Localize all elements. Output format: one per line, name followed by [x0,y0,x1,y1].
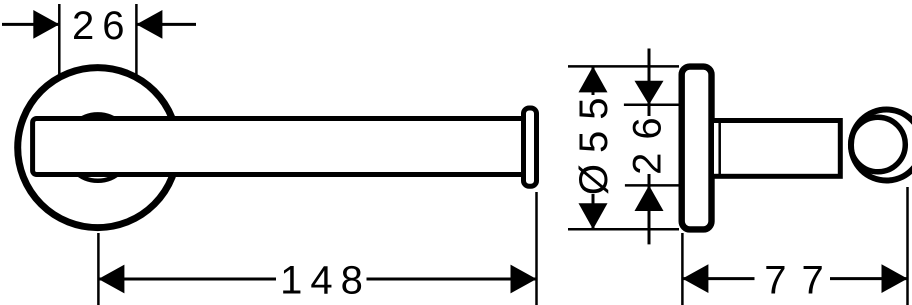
dim 77: right arrow [882,264,908,293]
dim 26 top: left arrow [33,10,59,39]
dim 26 top: right extension line [135,4,138,76]
side view: ring outer circle [851,110,912,181]
dim 148: right extension line [535,192,538,305]
dim 148: left arrow [98,265,124,294]
dim O55: bottom extension line [568,228,679,231]
dim 26 top: left extension line [58,4,61,75]
dim O55: top arrow [579,66,608,92]
side view: arm base edge line [718,121,721,177]
side view: rosette plate [682,67,712,230]
dim 148: line left segment [98,278,276,281]
front view: wall rosette circle [18,68,178,228]
dim 148: left extension line [97,233,100,305]
dim O55: line bottom segment [592,194,595,229]
dim 26 top: right arrow [136,10,162,39]
dim 148: right arrow [511,265,537,294]
dim 26 side: bottom extension line [625,184,679,187]
dim 26 side: line top segment [648,49,651,117]
dim 77: line left segment [682,277,754,280]
dim 26 top: right leader line [136,23,196,26]
dim O55: top extension line [568,65,679,68]
svg-text:Ø55: Ø55 [572,86,616,195]
side view: arm cylinder [712,121,841,177]
svg-text:26: 26 [626,104,670,175]
front view: screw cover small circle (behind bar) [65,114,131,180]
svg-text:148: 148 [280,258,371,302]
svg-text:77: 77 [764,259,839,303]
dim 26 side: bottom arrow [635,185,664,211]
front view: bar end cap [524,108,537,186]
dim 148: line right segment [367,278,537,281]
dim 26 side: top extension line [624,104,679,107]
dim 77: left arrow [682,264,708,293]
dim O55: line top segment [592,66,595,95]
front view: roll holder bar [33,119,527,175]
dim O55: bottom arrow [579,203,608,229]
svg-text:26: 26 [72,4,133,48]
dim 77: line right segment [830,277,908,280]
dim 26 top: left leader line [2,23,59,26]
side view: ring inner circle [851,117,906,172]
dim 77: left extension line [681,233,684,305]
dim 26 side: line bottom segment [648,174,651,244]
dim 77: right extension line [906,187,909,305]
dim 26 side: top arrow [635,81,664,105]
